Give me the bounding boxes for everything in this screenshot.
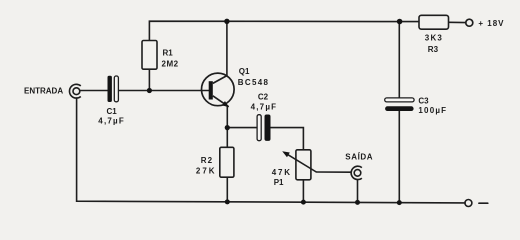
svg-text:3K3: 3K3 xyxy=(425,34,443,43)
svg-text:R3: R3 xyxy=(428,45,439,54)
svg-text:ENTRADA: ENTRADA xyxy=(24,86,63,95)
svg-text:BC548: BC548 xyxy=(238,78,269,87)
svg-text:P1: P1 xyxy=(274,178,284,187)
svg-text:27K: 27K xyxy=(196,166,217,175)
svg-text:R1: R1 xyxy=(163,48,174,57)
svg-text:4,7µF: 4,7µF xyxy=(98,117,125,126)
svg-text:2M2: 2M2 xyxy=(162,60,179,69)
svg-text:4,7µF: 4,7µF xyxy=(251,102,278,111)
svg-text:SAÍDA: SAÍDA xyxy=(345,153,373,162)
svg-text:47K: 47K xyxy=(272,168,292,177)
svg-text:R2: R2 xyxy=(201,156,213,165)
svg-text:+ 18V: + 18V xyxy=(478,19,504,28)
svg-text:C3: C3 xyxy=(418,97,429,106)
svg-text:Q1: Q1 xyxy=(239,67,250,76)
svg-text:C1: C1 xyxy=(107,107,118,116)
svg-text:100µF: 100µF xyxy=(418,106,447,115)
svg-text:C2: C2 xyxy=(258,92,269,101)
